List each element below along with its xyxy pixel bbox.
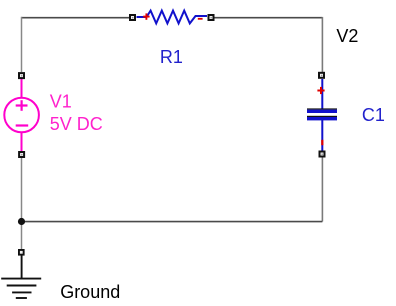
R1 polarity minus (red) xyxy=(198,18,203,20)
terminal ground (square) xyxy=(18,249,25,256)
R1 polarity plus (red) xyxy=(143,13,149,19)
C1 polarity minus (red, vertical on wire) xyxy=(321,140,323,145)
svg-text:V2: V2 xyxy=(336,26,358,46)
voltage source V1 (magenta battery circle) xyxy=(4,79,39,151)
ground symbol xyxy=(1,256,41,299)
terminal C1 bottom (square) xyxy=(319,151,326,158)
wire top-right horizontal (R1 right to corner) xyxy=(215,17,323,19)
V1 minus symbol xyxy=(16,124,29,126)
capacitor C1 top plate xyxy=(307,108,337,113)
svg-text:5V DC: 5V DC xyxy=(50,114,103,134)
junction node dot (bottom-left) xyxy=(18,218,25,225)
C1 polarity plus (red) xyxy=(317,87,324,94)
resistor R1 body (blue zigzag) xyxy=(137,11,208,24)
terminal C1 top (square) xyxy=(318,72,325,79)
wire bottom horizontal rail xyxy=(22,221,323,223)
wire right vertical lower (C1 bottom to bottom rail) xyxy=(321,158,323,222)
terminal V1 top (square) xyxy=(18,72,25,79)
V1 plus symbol xyxy=(16,100,28,111)
svg-text:R1: R1 xyxy=(160,47,183,67)
terminal pin 1 of R1 (left square) xyxy=(129,14,136,21)
wire left vertical upper (top corner down to V1 top) xyxy=(21,17,23,72)
terminal V1 bottom (square) xyxy=(18,151,25,158)
svg-text:Ground: Ground xyxy=(60,282,120,302)
capacitor C1 leads (blue) xyxy=(321,79,323,151)
wire right vertical upper (corner down to C1 top) xyxy=(321,17,323,72)
terminal pin 2 of R1 (right square) xyxy=(208,14,215,21)
wire left vertical lower (V1 bottom through junction to ground) xyxy=(21,158,23,249)
capacitor C1 bottom plate xyxy=(307,116,337,121)
svg-text:C1: C1 xyxy=(362,105,385,125)
svg-text:V1: V1 xyxy=(50,92,72,112)
wire top-left horizontal (node V1+ to R1 left) xyxy=(22,17,130,19)
